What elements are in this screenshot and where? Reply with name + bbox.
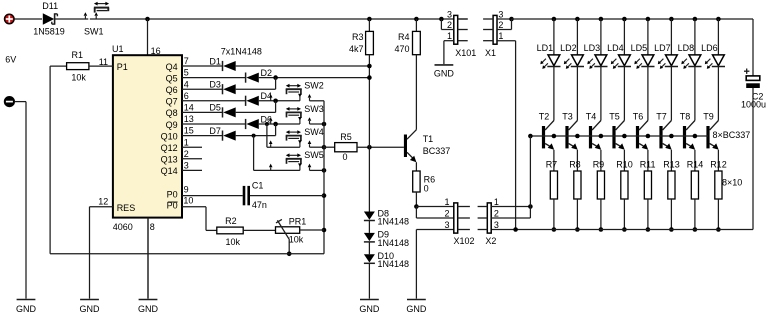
svg-text:4k7: 4k7: [349, 44, 364, 54]
node junction: [716, 17, 721, 22]
svg-text:LD8: LD8: [678, 43, 695, 53]
wire: [182, 195, 243, 197]
transistor T9: [706, 121, 718, 150]
node junction: [693, 134, 698, 139]
battery plus terminal: [5, 14, 15, 24]
wire: [415, 55, 417, 130]
node junction: [646, 134, 651, 139]
wire: [368, 19, 370, 31]
wire: [182, 169, 202, 171]
label R2: [225, 216, 237, 226]
label LD3: [584, 43, 601, 53]
LED LD1: [540, 55, 560, 69]
node junction: [669, 17, 674, 22]
wire: [497, 19, 512, 30]
wire: [416, 207, 454, 219]
connector X1 pin stub: [483, 40, 493, 42]
wire: [89, 65, 113, 67]
node junction: [575, 227, 580, 232]
svg-text:LD5: LD5: [631, 43, 648, 53]
svg-text:SW2: SW2: [304, 81, 324, 91]
svg-text:Q8: Q8: [166, 108, 178, 118]
ground: [434, 65, 455, 79]
svg-text:Q10: Q10: [161, 131, 178, 141]
wire: [182, 123, 246, 125]
wire: [182, 146, 202, 148]
node junction: [322, 168, 327, 173]
wire: [236, 78, 276, 90]
svg-text:7: 7: [184, 56, 189, 66]
connector X1 pin stub: [483, 29, 493, 31]
svg-text:1: 1: [498, 31, 503, 41]
label SW5: [304, 150, 324, 160]
svg-text:Q12: Q12: [161, 143, 178, 153]
node junction: [552, 134, 557, 139]
wire: [576, 150, 578, 171]
wire: [670, 150, 672, 171]
svg-text:10: 10: [183, 195, 193, 205]
svg-text:Q7: Q7: [166, 97, 178, 107]
diode D3: [223, 84, 236, 94]
label D2: [261, 68, 273, 78]
svg-text:15: 15: [184, 126, 194, 136]
node junction: [575, 134, 580, 139]
label D5: [209, 103, 221, 113]
LED LD8: [681, 55, 701, 69]
node junction: [669, 134, 674, 139]
label T7: [656, 112, 667, 122]
wire: [368, 242, 370, 254]
pin 15 label: [184, 126, 194, 136]
label 0: [424, 184, 429, 194]
svg-text:4060: 4060: [113, 222, 133, 232]
wire: [694, 19, 696, 55]
svg-text:D11: D11: [42, 1, 58, 11]
wire: [491, 229, 753, 231]
label D6: [261, 114, 273, 124]
pin 2 label: [184, 149, 189, 159]
node junction: [646, 227, 651, 232]
pin label P1: [117, 62, 128, 72]
label X101: [455, 48, 476, 58]
svg-text:T9: T9: [703, 112, 714, 122]
svg-text:X101: X101: [455, 48, 476, 58]
svg-text:11: 11: [99, 57, 108, 67]
pin 14 label: [184, 103, 194, 113]
connector X102 body: [454, 203, 458, 233]
node junction: [145, 17, 150, 22]
node junction: [513, 227, 518, 232]
wire: [416, 206, 454, 208]
svg-text:GND: GND: [80, 304, 101, 314]
wire: [717, 19, 719, 55]
label R6: [424, 174, 436, 184]
svg-text:R7: R7: [546, 159, 558, 169]
diode D5: [223, 107, 236, 117]
label 47n: [252, 200, 267, 210]
svg-text:4: 4: [184, 79, 189, 89]
label R12: [710, 159, 727, 169]
pin 13 label: [184, 114, 194, 124]
svg-text:R10: R10: [616, 159, 633, 169]
node junction: [528, 134, 533, 139]
IC U1 4060 body: [113, 55, 182, 217]
node junction: [273, 75, 278, 80]
svg-text:1N5819: 1N5819: [33, 27, 65, 37]
node junction: [622, 17, 627, 22]
label X2: [485, 236, 496, 246]
wire: [623, 19, 625, 55]
node junction: [669, 227, 674, 232]
label C2: [752, 91, 764, 101]
node junction: [528, 204, 533, 209]
wire: [254, 169, 300, 171]
wire: [553, 67, 555, 121]
connector X101 pin stub: [458, 29, 468, 31]
label SW3: [304, 104, 324, 114]
node junction: [575, 17, 580, 22]
wire: [647, 150, 649, 171]
switch SW1: [84, 2, 110, 19]
svg-text:10k: 10k: [71, 72, 86, 82]
svg-text:1N4148: 1N4148: [378, 238, 410, 248]
label R9: [593, 159, 605, 169]
svg-text:Q5: Q5: [166, 73, 178, 83]
svg-text:14: 14: [184, 103, 194, 113]
wire: [576, 67, 578, 121]
switch SW5: [269, 153, 311, 170]
label D8: [378, 208, 390, 218]
node junction: [599, 227, 604, 232]
LED LD7: [658, 55, 678, 69]
wire: [206, 229, 217, 231]
wire: [623, 199, 625, 230]
node junction: [693, 227, 698, 232]
label R11: [640, 159, 656, 169]
svg-text:3: 3: [447, 10, 452, 20]
svg-text:R13: R13: [663, 159, 680, 169]
pin 3 label: [447, 10, 452, 20]
node junction: [646, 17, 651, 22]
pin label Q4: [166, 62, 178, 72]
svg-text:GND: GND: [406, 304, 427, 314]
pin 3 label: [498, 10, 503, 20]
resistor R1: [67, 63, 89, 70]
wire: [600, 199, 602, 230]
svg-text:R5: R5: [340, 132, 352, 142]
pin 8 label: [150, 222, 155, 232]
svg-text:RES: RES: [117, 203, 136, 213]
svg-text:3: 3: [184, 161, 189, 171]
label LD4: [607, 43, 624, 53]
wire: [147, 218, 149, 299]
wire: [670, 19, 672, 55]
pin 11 label: [99, 57, 108, 67]
label LD2: [560, 43, 577, 53]
svg-text:1: 1: [184, 137, 189, 147]
wire: [441, 19, 454, 30]
svg-text:D1: D1: [209, 56, 221, 66]
pin label Q13: [161, 155, 178, 165]
transistor T6: [636, 121, 648, 150]
wire: [415, 192, 417, 207]
wire: [259, 100, 300, 102]
node junction: [252, 134, 256, 138]
switch SW2: [269, 84, 311, 101]
node junction: [693, 17, 698, 22]
wire: [694, 67, 696, 121]
svg-text:SW4: SW4: [304, 127, 324, 137]
wire: [491, 206, 530, 208]
label R14: [687, 159, 704, 169]
svg-text:PR1: PR1: [289, 216, 307, 226]
connector X2 pin stub: [478, 229, 488, 231]
pin 9 label: [184, 184, 189, 194]
svg-text:0: 0: [342, 152, 347, 162]
svg-text:1N4148: 1N4148: [378, 259, 410, 269]
connector X102 pin stub: [458, 217, 470, 219]
label R7: [546, 159, 558, 169]
wire: [491, 207, 530, 219]
pin label Q8: [166, 108, 178, 118]
svg-text:LD7: LD7: [654, 43, 671, 53]
wire: [600, 67, 602, 121]
label D1: [209, 56, 221, 66]
svg-text:Q13: Q13: [161, 155, 178, 165]
pin label Q6: [166, 85, 178, 95]
label SW4: [304, 127, 324, 137]
svg-text:R3: R3: [352, 32, 364, 42]
node junction: [367, 17, 372, 22]
label D9: [378, 230, 390, 240]
pin label Q5: [166, 73, 178, 83]
LED LD5: [634, 55, 654, 69]
node junction: [509, 17, 514, 22]
label 8×10: [722, 177, 742, 187]
wire: [512, 18, 754, 20]
svg-text:10k: 10k: [289, 234, 304, 244]
svg-text:SW1: SW1: [84, 27, 104, 37]
wire: [182, 77, 246, 79]
diode D4: [246, 96, 259, 106]
connector X102 pin stub: [458, 229, 470, 231]
wire: [253, 136, 255, 171]
svg-text:D2: D2: [261, 68, 273, 78]
switch SW3: [269, 107, 311, 124]
label D3: [209, 80, 221, 90]
ground: [138, 218, 159, 314]
wire: [529, 136, 531, 207]
wire: [368, 221, 370, 233]
label LD1: [537, 43, 554, 53]
svg-text:D5: D5: [209, 103, 221, 113]
pin 1 label: [444, 197, 449, 207]
pin label Q7: [166, 97, 178, 107]
resistor R8: [574, 171, 581, 199]
node junction: [622, 227, 627, 232]
wire: [310, 100, 325, 102]
transistor T1: [404, 130, 417, 163]
capacitor C1: [243, 186, 250, 205]
resistor R13: [668, 171, 675, 199]
svg-text:LD4: LD4: [607, 43, 624, 53]
connector X101 pin stub: [458, 40, 468, 42]
diode D10: [364, 254, 375, 263]
resistor R2: [217, 227, 243, 234]
wire: [717, 199, 719, 230]
wire: [530, 135, 708, 137]
svg-text:T8: T8: [680, 112, 691, 122]
label X1: [485, 48, 496, 58]
wire: [670, 199, 672, 230]
LED LD4: [611, 55, 631, 69]
label D10: [378, 251, 395, 261]
wire: [182, 207, 206, 231]
pin 16 label: [151, 46, 161, 56]
wire: [576, 199, 578, 230]
wire: [14, 18, 42, 20]
svg-text:T7: T7: [656, 112, 667, 122]
switch SW4: [269, 130, 311, 147]
svg-text:Q9: Q9: [166, 120, 178, 130]
wire: [259, 123, 300, 125]
pin 2 label: [494, 209, 499, 219]
diode D6: [246, 119, 259, 129]
pin label RES: [117, 203, 136, 213]
node junction: [552, 17, 557, 22]
connector X1 pin stub: [483, 18, 493, 20]
wire: [182, 158, 202, 160]
svg-text:9: 9: [184, 184, 189, 194]
wire: [576, 19, 578, 55]
svg-text:GND: GND: [434, 69, 455, 79]
node junction: [322, 228, 327, 233]
svg-text:T5: T5: [609, 112, 620, 122]
svg-text:U1: U1: [112, 44, 124, 54]
pin 1 label: [447, 31, 452, 41]
label T1: [423, 134, 434, 144]
svg-text:2: 2: [184, 149, 189, 159]
transistor T5: [612, 121, 624, 150]
svg-text:T6: T6: [633, 112, 644, 122]
LED LD6: [705, 55, 725, 69]
wire: [266, 124, 268, 147]
svg-text:10k: 10k: [226, 237, 241, 247]
pin label Q10: [161, 131, 178, 141]
node junction: [716, 227, 721, 232]
wire: [300, 229, 324, 231]
wire: [416, 229, 454, 231]
node junction: [367, 145, 372, 150]
svg-text:LD6: LD6: [701, 43, 718, 53]
wire: [310, 146, 325, 148]
label 1N5819: [33, 27, 65, 37]
label 10k: [289, 234, 304, 244]
connector X1 body: [493, 15, 497, 44]
svg-text:T2: T2: [539, 112, 550, 122]
wire: [694, 150, 696, 171]
LED LD3: [587, 55, 607, 69]
battery minus terminal: [4, 97, 14, 107]
resistor R14: [691, 171, 698, 199]
wire: [310, 123, 325, 125]
svg-text:R2: R2: [225, 216, 237, 226]
svg-text:R9: R9: [593, 159, 605, 169]
label R10: [616, 159, 633, 169]
wire: [182, 88, 223, 90]
wire: [55, 18, 88, 20]
label R4: [398, 32, 410, 42]
svg-text:R1: R1: [72, 50, 84, 60]
diode D9: [364, 233, 375, 242]
wire: [236, 101, 276, 113]
svg-text:GND: GND: [359, 304, 380, 314]
wire: [49, 66, 51, 254]
wire: [368, 55, 370, 212]
wire: [497, 18, 512, 20]
resistor R4: [413, 31, 421, 54]
svg-text:D3: D3: [209, 80, 221, 90]
node junction: [622, 134, 627, 139]
resistor R5: [335, 143, 357, 152]
svg-text:8: 8: [150, 222, 155, 232]
label R13: [663, 159, 680, 169]
wire: [647, 19, 649, 55]
pin 10 label: [183, 195, 193, 205]
svg-text:Q14: Q14: [161, 166, 178, 176]
label 7x1N4148: [221, 46, 262, 56]
ground: [406, 230, 427, 315]
pin 2 label: [498, 20, 503, 30]
resistor R3: [366, 31, 374, 54]
svg-text:2: 2: [447, 20, 452, 30]
svg-text:47n: 47n: [252, 200, 267, 210]
label LD6: [701, 43, 718, 53]
pin 2 label: [447, 20, 452, 30]
transistor T7: [659, 121, 671, 150]
label T3: [562, 112, 573, 122]
svg-text:T1: T1: [423, 134, 434, 144]
label 1N4148: [378, 238, 410, 248]
diode D8: [364, 212, 375, 221]
label T4: [586, 112, 597, 122]
node junction: [322, 122, 327, 127]
wire: [752, 88, 754, 230]
svg-text:2: 2: [498, 20, 503, 30]
svg-text:1: 1: [447, 31, 452, 41]
node junction: [287, 252, 292, 257]
svg-text:R8: R8: [569, 159, 581, 169]
svg-text:7x1N4148: 7x1N4148: [221, 46, 262, 56]
svg-text:8×BC337: 8×BC337: [713, 130, 751, 140]
wire: [50, 253, 324, 255]
wire: [717, 67, 719, 121]
svg-text:5: 5: [184, 68, 189, 78]
LED LD2: [564, 55, 584, 69]
wire: [288, 240, 290, 254]
svg-text:LD2: LD2: [560, 43, 577, 53]
wire: [236, 124, 276, 136]
wire: [717, 150, 719, 171]
connector X2 body: [487, 203, 491, 233]
svg-text:X1: X1: [485, 48, 496, 58]
wire: [647, 199, 649, 230]
wire: [694, 199, 696, 230]
label T5: [609, 112, 620, 122]
svg-text:2: 2: [444, 209, 449, 219]
svg-text:R12: R12: [710, 159, 727, 169]
wire: [182, 65, 223, 67]
